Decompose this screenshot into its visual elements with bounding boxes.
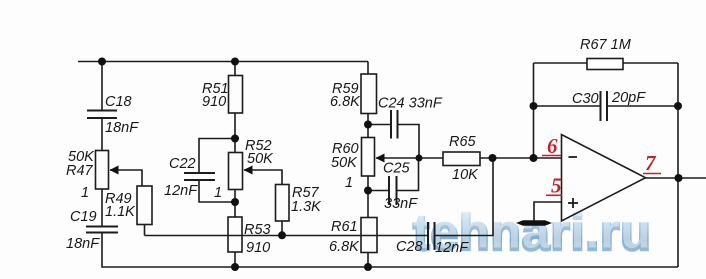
wire R60 to R61: [367, 176, 369, 218]
capacitor C28: [427, 222, 429, 250]
svg-text:33nF: 33nF: [384, 196, 418, 212]
junction R60 C25 R61: [364, 187, 372, 195]
wire C18 column top: [101, 62, 103, 111]
svg-text:C24 33nF: C24 33nF: [378, 96, 443, 112]
svg-text:C25: C25: [383, 161, 411, 177]
capacitor C25: [388, 176, 390, 205]
potentiometer R47: [96, 151, 109, 190]
capacitor C19: [86, 226, 118, 228]
svg-text:12nF: 12nF: [164, 183, 198, 199]
wire feedback top left: [534, 62, 588, 64]
junction R61 bottom: [364, 263, 372, 271]
svg-text:C18: C18: [105, 94, 132, 110]
resistor R59: [361, 74, 377, 114]
wire feedback left vertical: [533, 63, 535, 158]
wiper arrow R52: [244, 166, 253, 175]
svg-text:50K: 50K: [247, 151, 274, 167]
op-amp U1: [562, 135, 646, 222]
wire C19 to bottom bus: [102, 233, 678, 267]
svg-text:18nF: 18nF: [105, 120, 139, 136]
capacitor C22: [184, 172, 215, 174]
wire C25 left: [368, 190, 389, 192]
wire opamp plus input: [534, 202, 562, 222]
wire R65 to opamp minus: [480, 157, 562, 159]
wire C22 branch upper: [199, 139, 235, 173]
wire R52 wiper to R57: [244, 170, 282, 185]
svg-text:50K: 50K: [331, 155, 358, 171]
wiper arrow R47: [110, 166, 119, 175]
svg-text:18nF: 18nF: [66, 236, 100, 252]
wire feedback top right: [623, 62, 678, 64]
svg-text:R53: R53: [244, 222, 271, 238]
svg-text:C30: C30: [572, 91, 599, 107]
wire C30 right: [608, 105, 679, 107]
wire C24 right drop: [398, 125, 420, 159]
junction output: [675, 174, 683, 182]
wire R52 to R53: [234, 190, 236, 218]
wiper arrow R60: [376, 154, 385, 163]
svg-text:20pF: 20pF: [611, 90, 646, 106]
wire opamp output: [646, 177, 706, 179]
wire C30 left: [534, 105, 601, 107]
wire R47 to C19: [101, 189, 103, 226]
junction C30 right: [674, 102, 682, 110]
svg-text:910: 910: [202, 94, 226, 110]
svg-text:910: 910: [246, 240, 270, 256]
wire R60 wiper to node: [376, 157, 443, 159]
wire R47 wiper to R49: [110, 170, 142, 186]
capacitor C30: [600, 91, 602, 121]
svg-text:R47: R47: [66, 163, 94, 179]
opamp minus sign: [569, 156, 578, 158]
junction C30 left: [530, 102, 538, 110]
svg-text:C22: C22: [169, 156, 196, 172]
svg-text:R61: R61: [331, 219, 358, 235]
svg-text:6.8K: 6.8K: [329, 239, 360, 255]
svg-text:7: 7: [645, 151, 657, 175]
svg-text:5: 5: [551, 174, 562, 198]
svg-text:R65: R65: [449, 134, 477, 150]
junction C28 riser: [489, 154, 497, 162]
wire R51 to R52: [234, 113, 236, 153]
junction R52 C22 R53: [231, 198, 239, 206]
wire C22 branch lower: [199, 181, 235, 202]
junction top bus C18: [98, 58, 106, 66]
wire C25 right riser: [397, 158, 419, 191]
wire R59 to R60: [367, 114, 369, 138]
wire R53 to bottom bus: [234, 252, 236, 267]
svg-text:1: 1: [81, 185, 89, 201]
junction wiper node: [416, 155, 423, 162]
svg-text:6: 6: [547, 134, 558, 158]
junction feedback minus: [530, 154, 538, 162]
junction R53 bottom: [231, 263, 239, 271]
svg-text:6.8K: 6.8K: [330, 94, 361, 110]
wire R59 top corner: [367, 62, 369, 75]
resistor R53: [228, 217, 242, 252]
resistor R57: [276, 185, 290, 222]
svg-text:1.3K: 1.3K: [291, 199, 322, 215]
ground bar at opamp plus: [516, 220, 552, 226]
wire R57 bottom: [281, 221, 283, 236]
wire R51 top: [234, 62, 236, 76]
svg-text:10K: 10K: [452, 167, 479, 183]
wire feedback right vertical: [677, 63, 679, 267]
opamp plus sign vertical: [572, 198, 574, 208]
wire mid bus C28 to inverting riser: [435, 158, 493, 236]
wire R61 to bottom bus: [367, 253, 369, 268]
svg-text:12nF: 12nF: [435, 240, 469, 256]
potentiometer R52: [229, 153, 243, 190]
svg-text:R67 1M: R67 1M: [580, 37, 632, 53]
capacitor C24: [390, 110, 392, 139]
wire mid bus left of C28: [145, 235, 429, 237]
junction top bus R51: [231, 58, 239, 66]
wire C24 left: [368, 124, 391, 126]
svg-text:C28: C28: [396, 239, 423, 255]
potentiometer R60: [362, 138, 375, 177]
resistor R49: [137, 186, 152, 225]
wire top bus: [78, 61, 368, 63]
wire R49 bottom: [144, 225, 146, 236]
resistor R65: [443, 152, 480, 166]
resistor R67: [587, 59, 623, 70]
svg-text:C19: C19: [70, 209, 97, 225]
junction R59 C24 R60: [364, 121, 372, 129]
svg-text:1.1K: 1.1K: [105, 204, 136, 220]
resistor R61: [361, 218, 377, 253]
svg-text:1: 1: [345, 175, 353, 191]
resistor R51: [229, 76, 243, 114]
junction R51 C22: [231, 135, 239, 143]
svg-text:1: 1: [214, 185, 222, 201]
opamp plus sign horizontal: [568, 202, 578, 204]
junction R57 mid bus: [278, 231, 286, 239]
wire C18 to R47: [101, 119, 103, 151]
capacitor C18: [87, 110, 117, 112]
